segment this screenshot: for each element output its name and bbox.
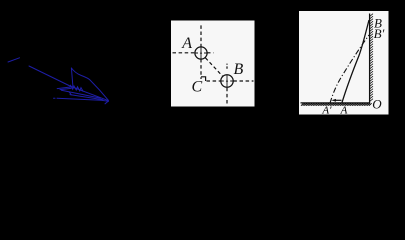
- wall hatching: [370, 14, 373, 102]
- ground hatching: [301, 103, 372, 106]
- fletching stroke 3: [70, 95, 103, 100]
- vertical dashed above A: [200, 25, 202, 47]
- fletching stroke 1: [57, 87, 72, 89]
- horizontal dashed C to B: [207, 80, 221, 82]
- zigzag hatching on body: [71, 85, 84, 91]
- vertical dashed A to C: [200, 59, 202, 79]
- horizontal dashed right of B: [233, 80, 253, 82]
- svg-text:A′: A′: [321, 105, 332, 117]
- circle A: [195, 47, 207, 59]
- bottom line: [57, 98, 109, 101]
- dart wing curve: [71, 68, 108, 100]
- long trajectory line: [29, 66, 109, 101]
- ladder A'B' dash-dot: [330, 35, 369, 103]
- left hand-drawn dart sketch: [8, 58, 109, 104]
- svg-text:O: O: [372, 97, 382, 112]
- arrowhead of left arrow: [331, 99, 336, 102]
- ladder AB solid: [342, 20, 369, 103]
- svg-text:B′: B′: [374, 26, 385, 41]
- left arrow: [335, 99, 342, 101]
- circle B: [221, 75, 233, 87]
- small tick: [69, 92, 71, 95]
- arrow inside A: [200, 47, 202, 58]
- ground line: [301, 102, 370, 104]
- short stroke top-left: [8, 58, 20, 62]
- svg-text:A: A: [181, 35, 192, 52]
- fletching stroke 2: [61, 90, 101, 98]
- svg-text:A: A: [340, 105, 348, 117]
- right angle marker at C: [201, 77, 206, 81]
- middle white box: [171, 21, 255, 107]
- right white box: [299, 11, 389, 115]
- svg-text:B: B: [234, 61, 244, 78]
- vertical dashed above B: [226, 64, 228, 69]
- arrow inside B: [226, 75, 228, 87]
- fletching stroke 1b: [60, 88, 71, 89]
- stubs inside A: [196, 52, 207, 54]
- stubs inside B: [221, 80, 232, 82]
- diagonal dashed A to B: [205, 58, 222, 76]
- horizontal dashed left of A: [173, 52, 196, 54]
- vertical dashed below B: [226, 88, 228, 106]
- wall line: [369, 14, 371, 104]
- dart body vertical: [71, 68, 73, 88]
- horizontal dashed right stub of A: [207, 52, 214, 54]
- svg-text:C: C: [192, 79, 203, 96]
- bottom line dot: [54, 97, 56, 99]
- nose barb: [105, 101, 109, 104]
